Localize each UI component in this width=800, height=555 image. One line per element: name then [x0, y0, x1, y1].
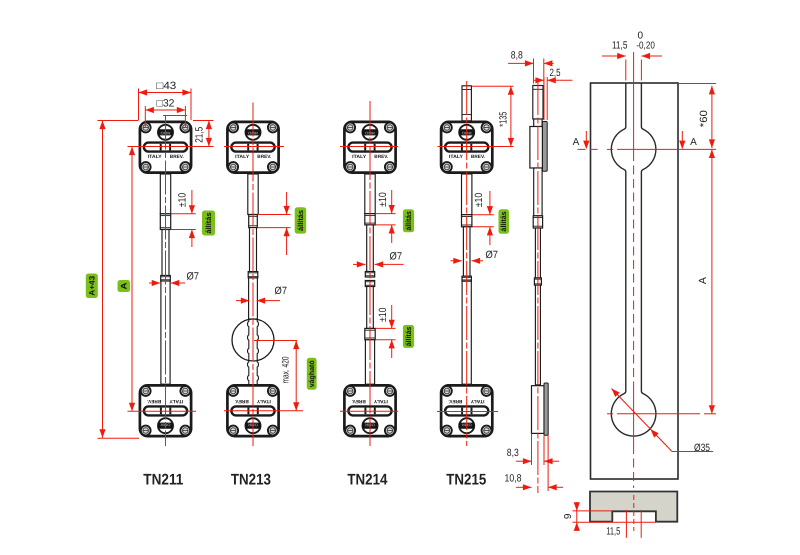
svg-text:Ø7: Ø7	[275, 285, 288, 297]
strike plate bottom circle center line	[607, 413, 613, 415]
TN214 lower rod	[365, 340, 374, 384]
TN213 cut-zone circle	[232, 319, 274, 361]
strike plate top edge reference	[678, 83, 716, 85]
TN214 upper adjustment joint	[365, 214, 375, 225]
svg-text:□43: □43	[156, 80, 176, 92]
svg-text:állítás: állítás	[404, 327, 413, 347]
svg-text:Ø35: Ø35	[694, 442, 710, 454]
TN215 thin rod	[463, 227, 470, 276]
TN211 center line	[165, 116, 167, 447]
profile plate sliver bottom	[544, 383, 548, 435]
TN213 adjustment joint	[249, 215, 258, 228]
bolt TN211 top plate	[140, 122, 191, 173]
TN214 slot center line	[340, 146, 398, 148]
svg-text:A: A	[573, 137, 580, 148]
profile top housing	[530, 127, 543, 169]
TN213 circle center reference	[254, 340, 297, 342]
TN214 thin rod	[367, 225, 374, 272]
svg-text:21,5: 21,5	[194, 127, 206, 143]
svg-text:állítás: állítás	[499, 211, 508, 231]
TN214 connector nut 1	[365, 272, 374, 278]
profile thin rod lower	[535, 285, 540, 385]
TN213 rod below nut	[249, 278, 258, 319]
svg-text:-0,20: -0,20	[636, 40, 655, 51]
TN213 slot center line	[224, 146, 284, 148]
strike plate front view	[591, 83, 679, 479]
TN215 bottom plate	[441, 385, 492, 436]
bolt TN213 top plate	[227, 122, 278, 173]
TN215 lower rod	[462, 281, 471, 384]
svg-text:±10: ±10	[377, 192, 389, 207]
svg-text:8,3: 8,3	[507, 447, 519, 459]
profile neck	[534, 119, 542, 127]
TN211 bottom plate	[140, 385, 191, 436]
bolt TN215 top plate	[441, 122, 492, 173]
TN213 vaghato label	[307, 358, 317, 390]
profile bottom housing	[532, 386, 545, 434]
TN213 connector nut	[248, 272, 258, 278]
profile center line	[537, 81, 539, 493]
profile thin rod	[535, 228, 540, 278]
TN211 allitas label	[202, 211, 215, 236]
svg-text:A+43: A+43	[87, 275, 96, 296]
TN213 cuttable serrated rod	[249, 319, 257, 384]
TN213 allitas label	[295, 207, 307, 233]
cross-section A-A bottom view	[590, 492, 677, 522]
profile top tube	[533, 86, 543, 120]
svg-text:8,8: 8,8	[511, 49, 523, 61]
TN214 bottom slot reference	[340, 410, 398, 412]
svg-text:állítás: állítás	[204, 213, 213, 234]
TN211 adjustment joint	[160, 214, 170, 230]
profile rod	[534, 168, 542, 216]
TN214 bottom plate	[344, 385, 395, 436]
TN215 bottom slot reference	[437, 411, 498, 413]
svg-text:állítás: állítás	[404, 211, 413, 231]
dimension A right	[711, 149, 713, 413]
svg-text:2,5: 2,5	[550, 67, 561, 79]
svg-text:±10: ±10	[473, 193, 485, 208]
svg-text:□32: □32	[157, 98, 175, 110]
TN211 plate top reference line	[98, 120, 139, 122]
TN213 center line	[252, 103, 254, 447]
svg-text:Ø7: Ø7	[390, 250, 403, 262]
svg-text:11,5: 11,5	[612, 39, 628, 51]
TN211 connector nut	[161, 276, 171, 282]
svg-text:A: A	[697, 277, 709, 284]
svg-text:TN215: TN215	[446, 472, 486, 489]
TN213 thin rod	[250, 228, 257, 272]
svg-text:max. 420: max. 420	[281, 357, 292, 384]
TN211 lower rod	[161, 281, 170, 384]
dimension *60	[711, 86, 713, 148]
TN211 thin rod	[162, 230, 169, 276]
dimension diameter 35 leader	[612, 389, 673, 452]
strike plate top circle center line	[578, 148, 602, 150]
TN215 rod upper tube	[462, 174, 472, 215]
TN213 rod upper tube	[248, 174, 258, 215]
dimension A left	[131, 147, 133, 412]
TN215 connector nut	[462, 276, 471, 281]
TN211 bottom plate reference	[98, 437, 140, 439]
svg-text:Ø7: Ø7	[485, 249, 498, 261]
TN215 rod above plate	[462, 86, 471, 121]
TN211 bottom slot reference	[128, 410, 197, 412]
TN213 bottom slot reference	[224, 410, 303, 412]
svg-text:Ø7: Ø7	[186, 270, 199, 282]
svg-text:9: 9	[563, 513, 574, 519]
svg-text:TN214: TN214	[347, 472, 387, 489]
TN213 bottom plate	[227, 385, 278, 436]
svg-text:A: A	[690, 137, 697, 148]
bolt TN214 top plate	[344, 122, 395, 173]
TN211 slot center line	[128, 146, 214, 148]
TN214 center line	[369, 101, 371, 446]
dimension A+43	[102, 121, 104, 438]
TN215 adjustment joint	[462, 215, 472, 227]
TN213 adjustment dimension	[258, 214, 291, 216]
keyhole slot with circles	[611, 83, 656, 436]
TN214 allitas label lower	[403, 325, 414, 348]
TN211 center tick	[163, 115, 187, 117]
svg-text:11,5: 11,5	[606, 525, 620, 537]
TN214 mid rod	[367, 287, 374, 329]
profile connector nut	[534, 278, 541, 285]
TN215 dimension *135	[472, 85, 514, 87]
TN215 allitas label	[499, 209, 510, 234]
profile plate sliver top	[542, 122, 547, 172]
svg-text:10,8: 10,8	[505, 473, 522, 485]
svg-text:±10: ±10	[377, 307, 389, 322]
TN211 rod upper tube	[160, 174, 170, 214]
TN214 connector nut 2	[365, 281, 374, 287]
TN214 lower adjustment joint	[365, 328, 375, 339]
TN214 allitas label upper	[403, 209, 414, 232]
svg-text:TN213: TN213	[231, 472, 271, 489]
svg-text:A: A	[119, 282, 128, 289]
TN215 center line	[466, 81, 468, 446]
svg-text:±10: ±10	[176, 193, 188, 208]
svg-text:vágható: vágható	[307, 360, 316, 388]
svg-text:TN211: TN211	[143, 472, 183, 489]
svg-text:*60: *60	[698, 110, 710, 127]
TN215 slot center line	[438, 146, 514, 148]
profile adjustment joint	[533, 216, 542, 228]
TN214 rod upper tube	[365, 174, 375, 214]
strike plate vertical center line	[633, 52, 635, 152]
svg-text:állítás: állítás	[296, 210, 305, 231]
svg-text:*135: *135	[498, 112, 510, 127]
